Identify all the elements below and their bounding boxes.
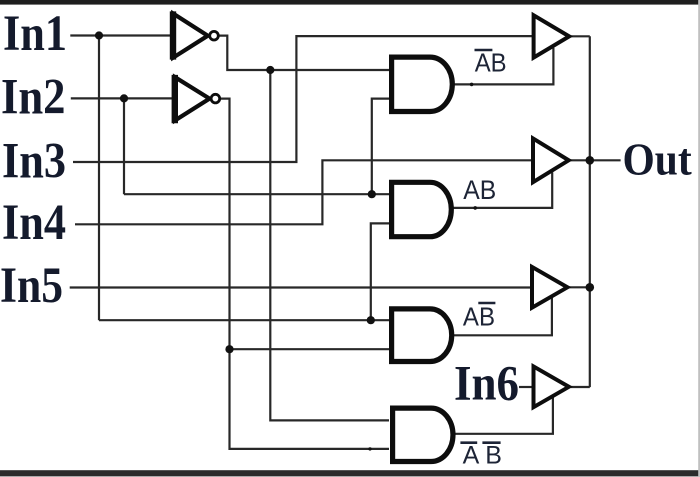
and-gate A4 (AbarBbar) — [393, 408, 453, 461]
tick on AND1 output — [470, 83, 474, 87]
svg-text:AB: AB — [463, 175, 496, 205]
wire node A branch up to AND2 bottom input — [371, 223, 389, 320]
wire buffer U4 output to bus — [570, 159, 589, 161]
wire inverter U2 output (Bbar) down — [220, 99, 230, 350]
buffer U4 (Out row, In4) — [533, 138, 569, 182]
wire output bus vertical — [589, 36, 591, 387]
junction node Abar — [266, 66, 274, 74]
label AbarB on AND1 — [475, 48, 507, 78]
wire AND4 output enable to buffer U6 — [455, 397, 553, 434]
wire AND1 output enable to buffer U3 — [454, 48, 554, 85]
svg-text:AB: AB — [475, 48, 507, 78]
junction node on In1 line — [95, 31, 103, 39]
junction node Bbar — [225, 345, 233, 353]
svg-text:A: A — [463, 441, 480, 469]
wire In6 to buffer U6 input — [519, 386, 534, 388]
wire In3 to buffer U3 input — [73, 36, 533, 162]
buffer U6 (In6) — [534, 366, 569, 407]
tick on Bbar-AND4 segment — [368, 447, 371, 450]
junction node at buffer U5 output — [586, 283, 595, 292]
inverter U2 — [175, 75, 220, 123]
svg-text:AB: AB — [463, 302, 495, 332]
top border bar — [0, 0, 700, 5]
wire Out from bus — [590, 159, 621, 161]
wire node B vertical from In2 junction down — [123, 98, 125, 194]
and-gate A1 (AbarB) — [392, 57, 453, 111]
label AbarBbar on AND4 — [460, 441, 501, 469]
and-gate A3 (ABbar) — [392, 309, 452, 362]
tick on AND2 output — [473, 206, 477, 210]
svg-text:In1: In1 — [3, 6, 67, 62]
wire In2 to inverter U2 — [71, 97, 173, 99]
junction node B — [368, 190, 376, 198]
svg-text:In5: In5 — [0, 258, 63, 314]
junction node on In2 line — [120, 94, 128, 102]
svg-text:In3: In3 — [2, 133, 66, 189]
wire node Bbar down to AND4 bottom input — [230, 349, 390, 449]
bottom border bar — [0, 470, 700, 476]
wire In5 to buffer U5 input — [70, 286, 532, 288]
buffer U3 (top, In3) — [534, 15, 570, 57]
wire node B horizontal to AND2 top input — [124, 193, 389, 195]
buffer U5 (In5) — [532, 267, 567, 308]
wire AND2 output enable to buffer U4 — [454, 172, 553, 208]
inverter U1 — [173, 11, 218, 59]
svg-text:In4: In4 — [2, 195, 66, 251]
right edge faint line — [698, 0, 700, 477]
svg-text:In2: In2 — [1, 70, 66, 126]
wire node Abar vertical down to AND4 top input — [270, 70, 389, 420]
wire In1 to inverter U1 — [70, 34, 170, 36]
wire buffer U5 output to bus — [569, 286, 590, 288]
wire AND3 output enable to buffer U5 — [454, 298, 552, 336]
and-gate A2 (AB) — [392, 182, 452, 236]
junction node A — [367, 316, 375, 324]
svg-text:In6: In6 — [454, 355, 519, 411]
wire node B branch up to AND1 bottom input — [372, 99, 389, 195]
wire node A vertical from In1 junction down — [98, 36, 100, 321]
label ABbar on AND3 — [463, 302, 496, 332]
wire In4 to buffer U4 input — [75, 160, 533, 224]
svg-text:B: B — [485, 441, 502, 469]
junction node at Out — [586, 156, 595, 165]
wire buffer U6 output to bus — [571, 386, 590, 388]
wire node Bbar to AND3 bottom input — [230, 348, 390, 350]
wire inverter U1 output (Abar) to AND1 top input — [218, 36, 389, 70]
svg-text:Out: Out — [623, 134, 693, 185]
wire node A horizontal to AND3 top input — [99, 319, 389, 321]
wire buffer U3 output to bus — [571, 35, 590, 37]
